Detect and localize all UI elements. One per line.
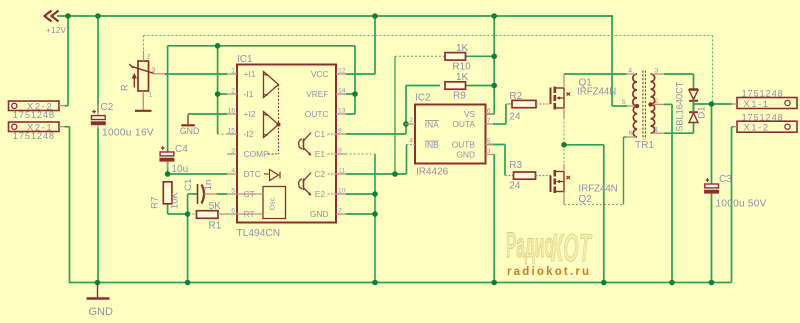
svg-text:GND: GND [180,126,200,136]
wire VCC pin12 [346,73,375,75]
wire D1 top anode [693,74,695,89]
pin R3 to Q2 gate [536,175,551,177]
pin R2 left [506,103,512,105]
wire +12V to X2-2 [67,16,69,106]
junction D1 cathode / C3 / X1-1 [709,101,715,107]
wire X1-2 down to rail [731,127,733,283]
svg-text:INB: INB [425,140,439,150]
wire output to C3 top [711,104,713,184]
pin IC1 6 RT [227,213,237,215]
pin R3 left [505,175,514,177]
junction +12V rail / VCC [372,13,378,19]
junction R7 C1 R1 [185,211,191,217]
ground (pot) [135,110,152,112]
pin IC2 4 INB [407,144,416,146]
pin IC2 5 OUTB [486,144,494,146]
pin C2 top [97,104,99,116]
junction VREF / -I1 [215,43,221,49]
diode D1 bottom half [689,112,698,122]
junction R10 / +12V [491,54,497,60]
pin IC1 2 -I1 [227,93,237,95]
svg-text:C2: C2 [314,169,325,179]
diode D1 top half [689,89,698,101]
svg-text:GND: GND [89,306,114,318]
pin IC1 16 +I2 [227,113,237,115]
diagram IC1 DTC comparator [264,170,280,181]
wire INB riser [406,145,408,175]
wire IC2 GND pin3 [493,154,494,156]
svg-text:3: 3 [487,148,491,155]
wire +12V to C2 top [97,16,99,113]
svg-text:C4: C4 [175,144,188,155]
pin IC1 15 -I2 [227,133,237,135]
pin C2 bottom [97,125,99,129]
node comparator2 output dot [277,123,281,127]
pin TR1 2 [652,103,665,105]
svg-text:IC1: IC1 [237,54,253,65]
svg-text:1: 1 [149,92,153,99]
svg-text:GND: GND [456,150,475,160]
svg-text:E2: E2 [315,189,326,199]
junction +12V rail / pullups [491,13,497,19]
wire C3 bottom to rail [711,193,713,283]
pin Q1 drain [563,74,565,88]
svg-text:IRFZ44N: IRFZ44N [577,87,616,98]
svg-text:11: 11 [338,168,345,175]
wire C1 to CT pin5 [217,193,228,195]
wire R7 to R1 node [168,213,188,215]
wire E1 E2 GND7 to rail [374,154,376,283]
resistor R1 [196,211,219,219]
ground (main GND rail) [87,283,110,299]
potentiometer R [129,61,154,91]
op-amp IC1 error amp 2 [264,112,279,138]
svg-text:+I2: +I2 [244,109,256,119]
svg-text:1751248: 1751248 [742,112,784,123]
svg-text:3: 3 [655,68,659,75]
svg-text:24: 24 [509,180,521,191]
svg-text:3: 3 [231,148,235,155]
wire OUTB riser to R3 [504,145,506,176]
wire X2-1 down to GND rail [69,127,71,283]
pin IC1 5 CT [227,193,237,195]
svg-text:4: 4 [409,138,413,145]
transistor IC1 output transistor 2 [299,173,312,196]
wire DTC pin4 [168,173,227,175]
junction R9 / +12V [491,83,497,89]
svg-text:DTC: DTC [244,169,261,179]
svg-text:5: 5 [622,99,626,106]
wire X2-2 stub join [65,105,69,107]
svg-text:12: 12 [338,68,346,75]
svg-text:4: 4 [628,68,632,75]
svg-text:R: R [119,84,129,91]
pin IC1 1 +I1 [227,73,237,75]
transformer TR1 [633,71,655,140]
svg-text:6: 6 [629,130,633,137]
svg-text:1751248: 1751248 [13,109,55,120]
pin IC1 14 VREF [336,93,346,95]
pin IC2 2 INA [405,123,415,125]
svg-text:R10: R10 [452,61,471,72]
wire IC2 GND to rail [493,155,495,283]
pin IC1 10 E2 [336,193,346,195]
pin TR1 5 [627,105,636,107]
resistor R7 [163,181,172,204]
wire +12V rail down to TR1 pin5 [611,16,613,106]
svg-text:5: 5 [231,188,235,195]
svg-text:2: 2 [147,54,151,61]
wire X2-1 to GND net [65,126,70,128]
junction VREF pin14 [352,91,358,97]
wire node down to GND rail [187,214,189,283]
transistor Q2 IRFZ44N [551,170,571,193]
wire R10 riser down [394,56,396,174]
wire OUTA riser to R2 [505,104,507,124]
wire D1 cathode link [693,101,695,112]
svg-text:1K: 1K [456,43,469,54]
svg-text:6: 6 [487,108,491,115]
wire feedback to pot pin2 (thin) [143,36,145,51]
pin X1-2 [734,126,737,128]
svg-text:VS: VS [464,109,476,119]
svg-text:C2: C2 [101,102,114,113]
wire R9 riser to INA node [405,86,407,135]
svg-text:КОТ: КОТ [551,226,593,270]
svg-text:-I1: -I1 [244,89,254,99]
junction GND rail / R7R1 [185,280,191,286]
junction GND rail / FET sources [601,280,607,286]
resistor R2 [512,100,537,107]
svg-text:1000u 50V: 1000u 50V [716,199,767,210]
junction GND rail / C3 [709,280,715,286]
pin IC1 11 C2 [336,173,346,175]
svg-text:SBL1640CT: SBL1640CT [675,81,685,131]
pin IC1 4 DTC [227,173,237,175]
wire X1-2 stub join [732,126,734,128]
pin TR1 4 [627,73,637,75]
wire +12V to R10 R9 VS [493,16,495,114]
op-amp IC1 error amp 1 [264,72,279,98]
svg-text:C1: C1 [183,179,194,191]
junction INA / R9 / C1out [403,121,409,127]
svg-text:INA: INA [425,120,439,130]
diagram IC1 oscillator [237,187,286,219]
wire TR1 pin2 center tap [664,103,672,105]
pin IC1 9 E1 [336,153,346,155]
wire VREF down to C4 [167,46,169,152]
node TR1 primary center tap [635,104,639,108]
svg-text:4: 4 [231,168,235,175]
wire GND pin7 [346,213,375,215]
pin R1 right [218,213,227,215]
wire Q1 source down (thin) [563,118,565,145]
wire to pin6 stub [624,136,627,138]
svg-text:1n: 1n [203,180,214,191]
svg-text:14: 14 [338,88,346,95]
svg-text:GND: GND [310,209,329,219]
pin IC1 7 GND [336,213,346,215]
svg-text:3: 3 [152,67,156,74]
wire OUTB [488,144,505,146]
svg-text:6: 6 [231,208,235,215]
wire -I1 pin2 [218,93,227,95]
svg-text:+12V: +12V [46,25,66,35]
junction E2 [372,191,378,197]
wire VREF pin14 [346,93,355,95]
ground (IC1 pin16) [181,115,195,126]
wire VREF horizontal [168,45,355,47]
wire Q2 drain riser to TR1 pin6 [623,137,625,205]
wire feedback net horizontal (thin) [144,35,713,37]
pin TR1 1 [652,132,665,134]
junction +12V rail / X2-2 [65,13,71,19]
svg-text:7: 7 [338,208,342,215]
svg-text:R7: R7 [149,197,160,209]
wire +12V top rail [57,15,613,17]
wire C1 left plate [188,193,197,195]
svg-text:E1: E1 [315,149,326,159]
svg-text:OUTB: OUTB [452,140,476,150]
wire node to Q2 source (thin) [563,145,565,164]
junction Q1 source / Q2 source [561,142,567,148]
svg-text:1751248: 1751248 [13,130,55,141]
svg-text:X1-1: X1-1 [744,98,770,109]
op-amp U: IC1 TL494CN body [237,65,336,223]
wire C4 bottom to DTC node [167,161,169,174]
wire R9 left [406,85,440,87]
wire D1 bottom anode [693,123,695,134]
pin X1-1 [732,103,737,105]
svg-text:10: 10 [338,188,346,195]
node TR1 secondary center tap [648,102,652,106]
transistor IC1 output transistor 1 [299,133,312,156]
connector X2-2 [9,101,60,111]
pin IC2 6 VS [486,113,494,115]
svg-text:15: 15 [227,128,235,135]
svg-text:C3: C3 [719,174,732,185]
svg-text:2: 2 [231,88,235,95]
connector X2-1 [9,122,60,132]
wire R10 right [466,55,495,57]
wire pot wiper to +I1 pin1 [165,73,227,75]
wire VREF to -I1 -I2 [217,46,219,134]
svg-text:D1: D1 [696,106,707,118]
svg-text:C1: C1 [314,129,325,139]
svg-text:-I2: -I2 [244,129,254,139]
wire VS pin6 [486,113,495,115]
svg-text:1751248: 1751248 [742,88,784,99]
svg-text:13: 13 [338,108,346,115]
wire source node to GND riser [564,144,604,146]
svg-text:1: 1 [231,68,235,75]
svg-text:10K: 10K [170,191,181,209]
junction GND rail / TR1 pin2 [669,280,675,286]
+12V supply symbol [45,11,59,22]
pin TR1 6 [627,136,637,138]
wire feedback riser to output (thin) [712,36,714,104]
connector X1-1 [737,98,797,109]
svg-text:Osc.: Osc. [270,196,277,210]
wire +12V to TR1 pin5 stub [612,105,627,107]
capacitor C1 [198,184,205,204]
pin R2 to Q1 gate [536,103,551,105]
wire E2 pin10 [346,193,375,195]
svg-text:Радио: Радио [506,225,554,265]
svg-text:OUTA: OUTA [452,119,475,129]
svg-text:5: 5 [487,138,491,145]
wire C1 to node riser [187,194,189,214]
pin pot 1 [142,91,144,110]
svg-text:+I1: +I1 [244,69,256,79]
capacitor C4 [159,146,174,161]
pin Q2 drain [563,192,565,205]
svg-text:R2: R2 [509,91,522,102]
pin C4 bottom [167,162,169,170]
svg-text:X1-2: X1-2 [744,121,770,132]
pin Q2 source [563,164,565,172]
pin R1 left [189,213,197,215]
svg-text:9: 9 [338,148,342,155]
wire center tap down to rail [671,104,673,282]
pin IC2 7 OUTA [486,123,494,125]
svg-text:OUTC: OUTC [305,109,329,119]
svg-text:IR4426: IR4426 [416,167,449,178]
wire Q2 drain across (thin) [564,204,624,206]
wire +I2 pin16 to GND [188,113,227,115]
junction GND rail / C2 [95,280,101,286]
wire R9 right [466,85,495,87]
svg-text:VREF: VREF [306,89,328,99]
svg-text:24: 24 [509,111,521,122]
svg-text:R3: R3 [509,160,522,171]
pin X2-1 [59,126,65,128]
junction GND pin7 [372,211,378,217]
junction +12V rail / C2 [95,13,101,19]
connector X1-2 [737,121,797,132]
capacitor C3 [704,178,719,193]
svg-text:R1: R1 [209,220,222,231]
svg-text:R9: R9 [453,90,466,101]
svg-text:7: 7 [487,118,491,125]
wire +12V to IC1 VCC riser [374,16,376,74]
wire R10 left (thin) [395,55,445,57]
wire VREF riser to OUTC [354,46,356,114]
wire C1 pin8 to INA [346,133,406,135]
junction GND rail / IC1 [372,280,378,286]
pin pot 2 [143,51,145,62]
svg-text:IC2: IC2 [415,92,431,103]
wire OUTC pin13 [346,113,355,115]
pin Q1 source [563,108,565,118]
svg-text:radiokot.ru: radiokot.ru [507,266,591,278]
wire TR1 pin1 to D1 [664,132,694,134]
logo RadioKOT watermark [506,225,593,270]
wire D1 cathode to X1-1 [694,103,732,105]
resistor R3 [513,172,536,179]
wire Q1 drain to TR1 pin4 [564,73,627,75]
pin IC1 3 COMP [227,153,237,155]
wire C2 pin11 to INB [346,173,407,175]
resistor R10 [445,53,467,61]
pin IC1 13 OUTC [336,113,346,115]
wire R7 bottom [167,204,169,214]
pin IC1 12 VCC [336,73,346,75]
svg-text:1: 1 [655,127,659,134]
svg-text:10u: 10u [172,164,189,175]
wire C2 bottom to GND rail [97,128,99,283]
svg-text:COMP: COMP [244,149,270,159]
junction -I1 pin2 [215,91,221,97]
svg-text:Q2: Q2 [579,194,593,205]
svg-text:2: 2 [409,117,413,124]
op-amp U2: IC2 IR4426 body [415,105,486,164]
svg-text:5K: 5K [209,201,222,212]
pin IC2 3 GND [486,154,494,156]
pin TR1 3 [652,73,665,75]
svg-text:1K: 1K [456,72,469,83]
wire source node down to rail [603,145,605,283]
wire E1 pin9 (thin) [346,153,375,155]
junction GND rail / IC2 [491,280,497,286]
svg-text:VCC: VCC [311,69,329,79]
pin X2-2 [59,105,65,107]
resistor R9 [445,82,467,89]
svg-text:TL494CN: TL494CN [237,228,281,239]
svg-text:2: 2 [655,98,659,105]
wire TR1 pin3 to D1 [664,73,694,75]
pin pot 3 wiper [154,73,165,75]
svg-text:16: 16 [227,108,235,115]
svg-text:1000u 16V: 1000u 16V [102,127,154,138]
wire bottom GND rail [69,282,732,284]
junction R10 / C2out [392,171,398,177]
junction C4 DTC R7 [165,171,171,177]
wire -I2 pin15 (thin) [218,133,227,135]
capacitor C2 [91,110,106,126]
pin IC1 8 C1 [336,133,346,135]
wire OUTA [493,123,506,125]
transistor Q1 IRFZ44N [551,87,571,110]
svg-text:TR1: TR1 [635,140,654,151]
svg-text:8: 8 [338,128,342,135]
node IC1 internal PWM bus (dashed) [268,85,279,155]
